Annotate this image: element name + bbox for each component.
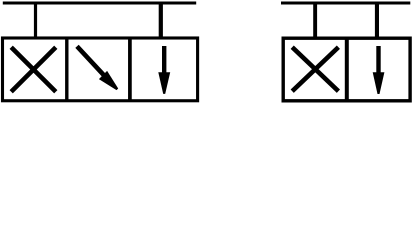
divider between box R1 and R2 bbox=[345, 38, 349, 101]
divider between box L2 and L3 bbox=[128, 38, 132, 101]
wire drop from right bus to box R1 bbox=[313, 3, 317, 38]
X symbol in box L1 bbox=[11, 47, 56, 92]
vertical down arrow in box R2 bbox=[373, 46, 385, 94]
wire drop from left bus to box L3 bbox=[159, 3, 163, 38]
right bus wire bbox=[281, 1, 410, 4]
left bus wire bbox=[3, 1, 196, 4]
divider between box L1 and L2 bbox=[65, 38, 68, 101]
right box row outline bbox=[283, 38, 410, 101]
wire drop from right bus to box R2 bbox=[375, 3, 379, 38]
vertical down arrow in box L3 bbox=[158, 46, 170, 94]
left box row outline bbox=[3, 38, 198, 101]
diagonal down-right arrow in box L2 bbox=[77, 46, 118, 90]
X symbol in box R1 bbox=[292, 47, 338, 91]
wire drop from left bus to box L1 bbox=[34, 3, 37, 38]
